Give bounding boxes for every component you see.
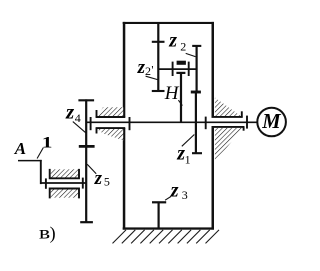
- planet shaft: [158, 68, 196, 70]
- shaft A collar tick: [45, 178, 47, 188]
- leader line for z1: [182, 135, 195, 147]
- shaft A bearing lower block: [50, 189, 79, 199]
- housing right wall upper segment: [212, 22, 215, 117]
- svg-text:2: 2: [180, 39, 186, 53]
- planet gear z2' vertical line with ring attachment: [157, 22, 159, 91]
- ground hatching below housing: [113, 230, 220, 244]
- leader line for z4: [73, 122, 86, 133]
- label z2: [168, 29, 186, 53]
- svg-text:2: 2: [145, 64, 151, 78]
- svg-text:z: z: [65, 100, 75, 124]
- svg-text:1: 1: [185, 153, 191, 167]
- ring gear z3 lower attachment line: [158, 202, 160, 228]
- planet shaft tick at z2 hub: [188, 62, 190, 76]
- label z4: [65, 100, 81, 125]
- planet gear z2 vertical line: [196, 46, 198, 91]
- svg-text:': ': [151, 63, 153, 77]
- label A (shaft A): [14, 139, 26, 158]
- housing right wall lower segment: [212, 128, 215, 230]
- svg-text:4: 4: [75, 111, 81, 125]
- svg-text:1: 1: [42, 134, 53, 151]
- shaft collar tick inside box at right wall: [205, 117, 207, 130]
- label z1: [176, 143, 190, 167]
- gear z4 top tick: [78, 99, 94, 101]
- sun gear z1 vertical line: [195, 92, 197, 154]
- ring gear z3 lower mesh tick: [152, 201, 166, 203]
- right wall bearing upper bracket: [212, 98, 243, 118]
- shaft collar tick inside box at left wall: [129, 117, 131, 130]
- figure label в): [39, 223, 56, 244]
- shaft A horizontal end line: [18, 160, 42, 162]
- left wall bearing lower bracket: [96, 128, 126, 141]
- gear z4/z5 mesh tick: [79, 145, 95, 148]
- shaft A vertical step: [40, 160, 42, 184]
- gear z2' bottom tick: [152, 90, 165, 92]
- shaft A main line: [40, 182, 86, 184]
- svg-text:A: A: [14, 139, 26, 158]
- label z3: [170, 180, 188, 202]
- carrier H arm rod: [180, 73, 182, 122]
- planet shaft tick at z2' hub: [172, 62, 174, 76]
- label 1 (shaft number): [42, 134, 53, 151]
- coupling tick at motor: [246, 116, 248, 129]
- gear z2 top tick: [192, 45, 201, 47]
- label H: [164, 83, 180, 104]
- left wall bearing upper bracket: [96, 107, 126, 117]
- leader line for H: [178, 100, 182, 105]
- shaft collar tick left of left bearing: [90, 117, 92, 130]
- leader line for z2: [186, 53, 196, 56]
- central shaft (carrier/sun shaft to motor): [86, 121, 257, 123]
- housing top wall: [123, 22, 214, 24]
- svg-text:z: z: [168, 29, 177, 51]
- svg-text:в: в: [39, 223, 50, 243]
- gear z5 bottom tick: [80, 221, 93, 223]
- svg-text:): ): [50, 223, 56, 244]
- svg-text:H: H: [164, 83, 180, 104]
- svg-text:M: M: [261, 109, 281, 133]
- leader line for z2': [146, 76, 158, 79]
- right wall bearing lower bracket: [212, 127, 245, 163]
- carrier bearing filled block: [177, 61, 186, 65]
- label z5: [94, 168, 110, 189]
- carrier arm cross bar: [176, 72, 185, 74]
- housing left wall upper segment: [123, 22, 126, 118]
- housing left wall lower segment: [123, 128, 126, 230]
- gear z1/z2 mesh tick: [191, 91, 201, 94]
- svg-text:5: 5: [104, 174, 110, 188]
- gear z1 bottom tick: [192, 152, 202, 154]
- shaft A bearing upper block: [50, 169, 79, 178]
- label z2': [137, 57, 154, 78]
- gear z4/z5 common vertical line: [85, 99, 87, 222]
- leader line for label 1: [37, 148, 43, 159]
- leader line for z5: [87, 164, 96, 174]
- motor circle M: [257, 108, 286, 137]
- svg-text:z: z: [94, 168, 103, 189]
- svg-text:3: 3: [182, 188, 188, 202]
- ring gear z3 upper mesh tick: [152, 41, 165, 43]
- housing bottom wall: [123, 227, 214, 229]
- leader line for z3: [165, 197, 171, 201]
- svg-text:z: z: [170, 180, 179, 202]
- gear z5 hub tick on shaft A: [82, 178, 84, 189]
